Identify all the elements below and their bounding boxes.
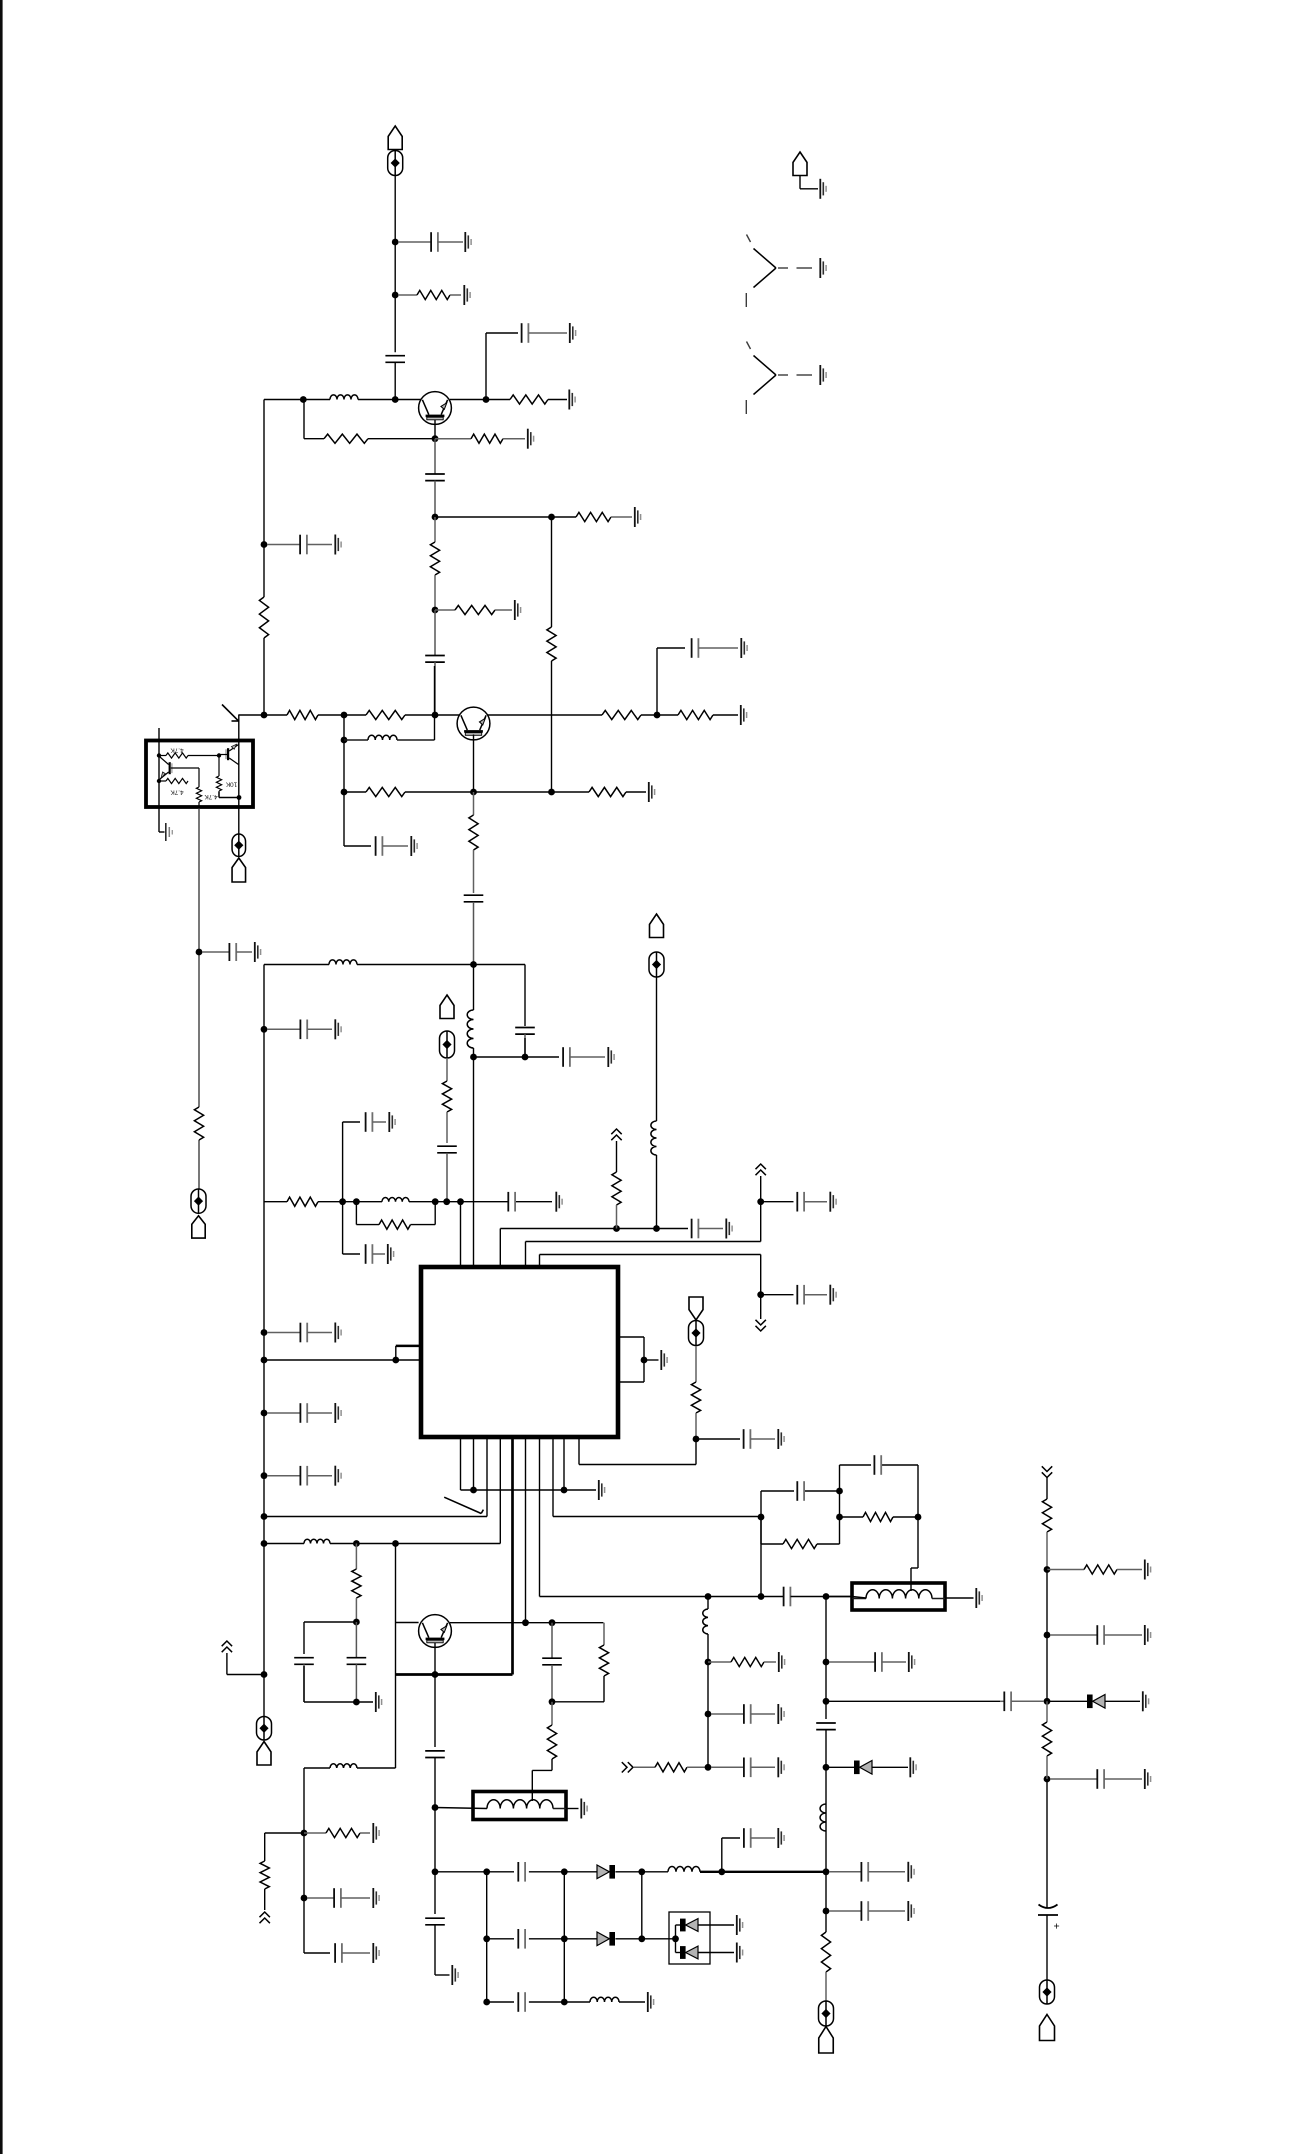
resistor R21 (612, 1172, 621, 1229)
node x486 junction 1939 (483, 1935, 490, 1942)
wire T1 internal entry (826, 1597, 866, 1599)
wire D5 to ground (698, 1952, 734, 1954)
wire input diagonal stub (222, 705, 239, 722)
node y=610 junction (432, 607, 439, 614)
resistor R20 (parallel with L5) (379, 1220, 410, 1229)
wire mid-left column (198, 808, 200, 1189)
node emitter row junctions (341, 789, 555, 796)
ground below box1 (166, 823, 173, 841)
capacitor C38 (829, 1862, 905, 1882)
node junction 722 (718, 1868, 725, 1875)
node connector arrow (right) E (622, 1762, 633, 1772)
inductor L8 (703, 1609, 708, 1634)
inductor L6 (651, 1121, 657, 1155)
wire x=435 column lower (435, 1872, 450, 1975)
wire left rail mid (263, 965, 265, 1717)
ground for R16 (649, 782, 655, 802)
node x486 junction 2002 (483, 1999, 490, 2006)
wire D6 leads (1047, 1700, 1140, 1702)
capacitor C25 plates (784, 1587, 791, 1607)
node junctions 1490 (470, 1487, 567, 1494)
wire x708 column (707, 1597, 709, 1768)
capacitor C36 plates (518, 1862, 525, 1882)
wire D4 to ground (698, 1924, 734, 1926)
node row2002 junction (561, 1999, 568, 2006)
resistor R17 (469, 792, 478, 893)
wire emitter row left (304, 400, 435, 439)
capacitor C24 (744, 1429, 775, 1449)
ground for C33 (909, 1652, 915, 1672)
node Q2 collector junction (654, 712, 661, 719)
node junctions row 1596 (705, 1593, 830, 1600)
wire row y=2002 (487, 2001, 645, 2003)
ground for C37 (778, 1828, 784, 1848)
resistor R12 (678, 710, 713, 719)
resistor R35 (1042, 1701, 1051, 1779)
wire Q1 emitter (434, 420, 436, 439)
node junctions row 715 (261, 712, 439, 719)
resistor R4 (435, 434, 525, 443)
diode D5 (680, 1946, 698, 1959)
node junction on P1 column 2 (392, 292, 399, 299)
wire right rail top (1046, 1478, 1048, 1500)
port P10 (antenna test) (793, 152, 807, 176)
node connector arrow (up) D (222, 1641, 232, 1652)
wire base row y=715 (239, 714, 460, 716)
capacitor C31 plates (797, 1481, 804, 1501)
ground for R34 (1145, 1560, 1151, 1580)
wire L4 leads (473, 965, 475, 1058)
ground for R32 (373, 1823, 379, 1843)
wire cap pair top row (304, 1622, 356, 1654)
label 4.7K middle (204, 793, 218, 800)
capacitor C19 (366, 1112, 386, 1132)
inductor L5 (382, 1197, 409, 1201)
node jog junction (392, 1357, 399, 1364)
diode D2 (597, 1865, 615, 1879)
port P2 (below box1) (232, 834, 246, 882)
label 4.7K top (170, 747, 184, 754)
wire Q6 base chain (219, 755, 227, 777)
antenna symbol A (unconnected) (746, 235, 812, 308)
capacitor C9 (376, 836, 408, 856)
resistor 4.7K (box1 top) (159, 753, 219, 758)
node junction 964 (470, 961, 477, 968)
svg-text:4.7K: 4.7K (170, 789, 184, 796)
node box1 left rail joins (157, 753, 161, 783)
wire x=304 column (304, 1768, 330, 1953)
ground for L13 (648, 1992, 654, 2012)
node x826 junction 1872 (823, 1868, 830, 1875)
shielded inductor T2 (boxed) (473, 1792, 566, 1820)
wire C2 to base row (394, 362, 396, 399)
ground for C22 (830, 1192, 836, 1212)
node Q1 emitter junction (432, 435, 439, 442)
wire Q2 emitter (473, 735, 475, 793)
port P5 (649, 914, 664, 977)
wire branch up to C37 (722, 1838, 740, 1872)
ground for C1 (465, 232, 471, 252)
wire row y=1439 (696, 1438, 740, 1440)
wire row y=1057 (474, 1038, 560, 1057)
inductor L3 (329, 960, 357, 965)
port P6 (IF out) (689, 1297, 704, 1346)
ground for C24 (778, 1429, 784, 1449)
wire into boxB (435, 1808, 487, 1809)
wire diode pair split (676, 1925, 681, 1953)
node junctions row 1202 (339, 1198, 464, 1205)
capacitor C41 plates (518, 1992, 525, 2012)
wire cap pair bottom row (304, 1666, 373, 1702)
resistor R13 (259, 597, 268, 638)
capacitor C34 (816, 1723, 836, 1730)
ground for C23 (830, 1285, 836, 1305)
capacitor C4 (425, 439, 445, 517)
inductor L10 (820, 1804, 826, 1831)
resistor R9 (287, 710, 318, 719)
wire U1 bottom pin 473 (473, 1438, 475, 1490)
inductor L4 (467, 1010, 473, 1048)
wire tap into boxB (532, 1759, 552, 1801)
capacitor C12 (563, 1047, 605, 1067)
capacitor C45 (1050, 1625, 1142, 1645)
diode D3 (597, 1932, 615, 1946)
ground for D4 (737, 1915, 743, 1935)
capacitor C23 (797, 1285, 827, 1305)
resistor R31 (260, 1861, 269, 1889)
node row1939 junctions (561, 1935, 679, 1942)
node connector arrow (down) C (756, 1320, 766, 1331)
node junction on P1 column (392, 239, 399, 246)
node Q6 base junction (217, 753, 221, 757)
shielded inductor T1 (boxed) (852, 1583, 945, 1610)
ground for C7 (335, 535, 341, 555)
capacitor C7 (267, 535, 332, 555)
resistor R7 (435, 605, 512, 614)
wire RC to row 1596 (760, 1517, 762, 1597)
ground for D1 (910, 1757, 916, 1777)
wire U1 top pin A (460, 1202, 462, 1267)
transistor Q3 (419, 1615, 452, 1648)
ground for D6 (1143, 1691, 1149, 1711)
svg-text:4.7K: 4.7K (170, 747, 184, 754)
wire x=435 to row 1872 (434, 1808, 436, 1872)
ground for antenna symbol B (unconnected) (820, 365, 826, 385)
capacitor C15 (267, 1323, 332, 1343)
wire row y=1202 (264, 1201, 552, 1203)
wire base row y=399 (264, 399, 421, 401)
node junction 1201 (757, 1198, 764, 1205)
node Q1 collector junction (483, 396, 490, 403)
node junction 1807 (432, 1804, 439, 1811)
port P3 (left) (191, 1189, 206, 1238)
wire branch cap row (761, 1201, 794, 1203)
ground for C29 (778, 1757, 784, 1777)
wire row y=1939 (487, 1938, 676, 1940)
ground for C43 (373, 1888, 379, 1908)
node connector arrow (down) G (1042, 1466, 1052, 1477)
capacitor C11 (515, 1028, 535, 1058)
node connector arrow (up) A (611, 1129, 621, 1140)
wire U1 right pins to ground (618, 1337, 659, 1382)
sub-circuit box (thick border) (146, 741, 253, 808)
ground for P10 (820, 179, 826, 199)
resistor R3 (324, 434, 368, 443)
ground for C38 (908, 1862, 914, 1882)
wire row y=964 (264, 964, 525, 966)
capacitor C42 (829, 1901, 905, 1921)
wire T1 to ground (945, 1597, 974, 1599)
resistor R10 (366, 710, 405, 719)
wire U1 left pin row (264, 1346, 421, 1360)
ground for C21 (726, 1219, 732, 1239)
port P8 (AF out) (819, 2001, 834, 2053)
node row1872 junctions (483, 1868, 645, 1875)
wire row y=1768 (304, 1767, 396, 1769)
label 10K (225, 781, 237, 788)
node junction x708 y1767 (705, 1764, 712, 1771)
capacitor C21 (692, 1219, 723, 1239)
wire left rail upper (263, 400, 265, 716)
inductor L7 (304, 1539, 330, 1543)
wire emitter row y=792 (344, 791, 646, 793)
ground for C16 (335, 1403, 341, 1423)
node right rail junctions (1044, 1566, 1051, 1782)
port P9 (supply) (1040, 1980, 1055, 2041)
capacitor C16 (267, 1403, 332, 1423)
wire U1 top pin E to row 1254 (540, 1255, 761, 1320)
resistor R14 (194, 1107, 203, 1140)
resistor R19 (287, 1197, 318, 1206)
resistor 4.7K (box1 mid) (159, 778, 188, 783)
svg-text:10K: 10K (225, 781, 237, 788)
wire U1 bottom pin 500 to left (264, 1438, 500, 1544)
label 4.7K mid (170, 789, 184, 796)
wire box1 right rail (238, 714, 240, 834)
wire tap to boxA (911, 1517, 918, 1591)
wire P10 to ground (800, 176, 818, 189)
ground for R1 (464, 285, 470, 305)
wire row 1701 to right rail (826, 1700, 1000, 1702)
ground for C47 (1145, 1769, 1151, 1789)
ground for C20 (388, 1244, 394, 1264)
wire bold segment row 1872 (700, 1871, 826, 1873)
wire arrow to R21 (616, 1141, 618, 1172)
ground for C45 (1145, 1625, 1151, 1645)
ground for cap pair (376, 1692, 382, 1712)
wire rail seg4 (1046, 1779, 1048, 1908)
node left rail junction 544 (261, 541, 268, 548)
capacitor C48 (polarized) (1038, 1905, 1060, 1933)
resistor R15 (366, 787, 405, 796)
wire Q3 emitter (434, 1643, 436, 1675)
node junction 1702 (353, 1699, 360, 1706)
wire rail seg3 (1046, 1635, 1048, 1701)
ground for T1 (976, 1588, 982, 1608)
resistor R29 (863, 1512, 893, 1521)
capacitor C3 (522, 323, 567, 343)
node x826 junction 1911 (823, 1908, 830, 1915)
wire x=551 column (551, 517, 553, 792)
node left rail junction 1413 (261, 1410, 268, 1417)
node collector junctions (522, 1619, 555, 1626)
ground for C8 (255, 942, 261, 962)
node junction 1872 (432, 1868, 439, 1875)
node junction y=952 (196, 949, 203, 956)
wire x=344 column (344, 715, 371, 846)
capacitor C46 plates (1000, 1692, 1044, 1712)
transistor Q1 (419, 392, 452, 425)
resistor 4.7K (box1 middle) (196, 787, 201, 807)
node rail junction 1674 (261, 1671, 268, 1678)
capacitor C17 (267, 1466, 332, 1486)
resistor R34 (1047, 1565, 1142, 1574)
capacitor C32 plates (874, 1455, 881, 1475)
diode pair box (669, 1912, 710, 1964)
wire U1 bottom pin 461 (460, 1438, 462, 1490)
capacitor C33 (829, 1652, 906, 1672)
ground for R4 (528, 429, 534, 449)
wire Q3 collector row (450, 1622, 604, 1624)
capacitor C28 (542, 1623, 562, 1702)
svg-text:4.7K: 4.7K (204, 793, 218, 800)
capacitor C26 (294, 1658, 314, 1702)
wire U1 bottom pin 564 (563, 1438, 565, 1490)
resistor R6 (430, 517, 439, 610)
resistor R22 (691, 1346, 700, 1439)
wire L2 to C5 column (434, 666, 436, 740)
capacitor C40 plates (518, 1929, 525, 1949)
capacitor C20 (366, 1244, 385, 1264)
capacitor C35 (425, 1751, 445, 1758)
capacitor C44 (335, 1943, 370, 1963)
wire P5 column (656, 977, 658, 1229)
inductor L12 (668, 1867, 700, 1872)
node left rail junction 1332 (261, 1329, 268, 1336)
node x826 junctions (823, 1659, 830, 1771)
wire U1 bottom pin 525 (525, 1438, 527, 1623)
wire x=564 column (563, 1872, 565, 2002)
wire U1 bottom pin 487 to left (264, 1438, 487, 1517)
node emitter junction (432, 1671, 439, 1678)
resistor R23 (352, 1544, 361, 1623)
ground for C9 (411, 836, 417, 856)
capacitor C1 (398, 232, 463, 252)
wire row y=1872 (435, 1871, 668, 1873)
node box1 right rail junction (237, 795, 242, 800)
ground for C19 (389, 1112, 395, 1132)
node right pin junction (641, 1357, 648, 1364)
inductor L2 (344, 735, 435, 740)
wire Q3 base column (396, 1544, 419, 1769)
port P4 (osc) (440, 995, 455, 1058)
capacitor C14 (267, 1020, 332, 1040)
node base row junctions (300, 396, 399, 403)
resistor R18 (442, 1058, 451, 1143)
capacitor C30 (711, 1704, 775, 1724)
ground for R2 (569, 390, 575, 410)
resistor R11 (602, 710, 641, 719)
diode D6 (1087, 1695, 1105, 1709)
inductor L14 (330, 1764, 357, 1768)
wire branch cap row 2 (761, 1294, 794, 1296)
resistor R28 (783, 1539, 817, 1548)
resistor R8 (547, 627, 556, 661)
wire ground row y=1490 (461, 1489, 597, 1491)
wire T2 to ground (566, 1808, 579, 1810)
ground row 1490 (599, 1480, 605, 1500)
ground for D5 (737, 1943, 743, 1963)
wire rail seg5 (1046, 1915, 1048, 1980)
wire x=486 column (486, 1872, 488, 2002)
wire U1 bottom pin 513 (thick) (396, 1438, 513, 1675)
resistor R16 (589, 787, 626, 796)
wire U1 left pin B (bold) (396, 1345, 421, 1348)
wire U1 top pin D to row 1241 (526, 1176, 761, 1267)
ground for T2 (581, 1799, 587, 1819)
wire P6 node to pin 579 (579, 1438, 696, 1465)
resistor R26 (634, 1763, 708, 1772)
wire U1 bottom pin 539 to row 1596 (540, 1438, 784, 1597)
wire x826 to 1911 (825, 1872, 827, 1932)
wire x=641 column (641, 1872, 643, 1939)
wire Q5 base to middle resistor (171, 768, 199, 787)
wire arrow D to rail (227, 1653, 264, 1675)
node x304 junctions (301, 1830, 308, 1902)
node junction 1294 (757, 1291, 764, 1298)
capacitor C6 (692, 638, 738, 658)
resistor R33 (1042, 1499, 1051, 1570)
capacitor C29 (711, 1758, 775, 1778)
ground for C6 (741, 638, 747, 658)
capacitor C10 (464, 895, 484, 964)
wire x=343 stub column (343, 1122, 360, 1254)
ground for C17 (335, 1466, 341, 1486)
wire 10K bottom row (219, 792, 239, 798)
wire RC section 2 (840, 1465, 919, 1517)
diode D1 (854, 1761, 872, 1775)
ground for U1 right pins (661, 1350, 667, 1370)
node connector arrow (up) B (756, 1164, 766, 1175)
wire row y=517 (435, 516, 576, 518)
port P1 (RF test point, top) (388, 126, 403, 176)
ground for C18 (556, 1192, 562, 1212)
wire RC section 1 (761, 1491, 840, 1544)
transistor Q6 (in box1) (225, 744, 238, 764)
ground for antenna symbol A (unconnected) (820, 258, 826, 278)
capacitor C8 (202, 943, 252, 961)
wire U1 bottom pin 553 to RC chain (553, 1438, 761, 1517)
ground end of column (452, 1965, 458, 1985)
resistor R30 (821, 1932, 830, 2001)
ground for C44 (373, 1943, 379, 1963)
transistor Q5 (in box1) (160, 757, 173, 779)
capacitor C37 (744, 1828, 775, 1848)
diode D4 (680, 1919, 698, 1932)
node junctions 1543 (261, 1540, 399, 1547)
wire P1 to Q1 base column (394, 176, 396, 353)
capacitor C5 (425, 610, 445, 715)
node junction 1057 (470, 1054, 528, 1061)
node RC chain nodes (758, 1488, 922, 1521)
resistor R24 (599, 1623, 608, 1676)
capacitor C18 plates (508, 1192, 515, 1212)
capacitor C22 (797, 1192, 827, 1212)
ground for R27 (779, 1652, 785, 1672)
capacitor C43 (307, 1888, 370, 1908)
node left rail junction 1029 (261, 1026, 268, 1033)
wire Q2 collector row (488, 714, 739, 716)
